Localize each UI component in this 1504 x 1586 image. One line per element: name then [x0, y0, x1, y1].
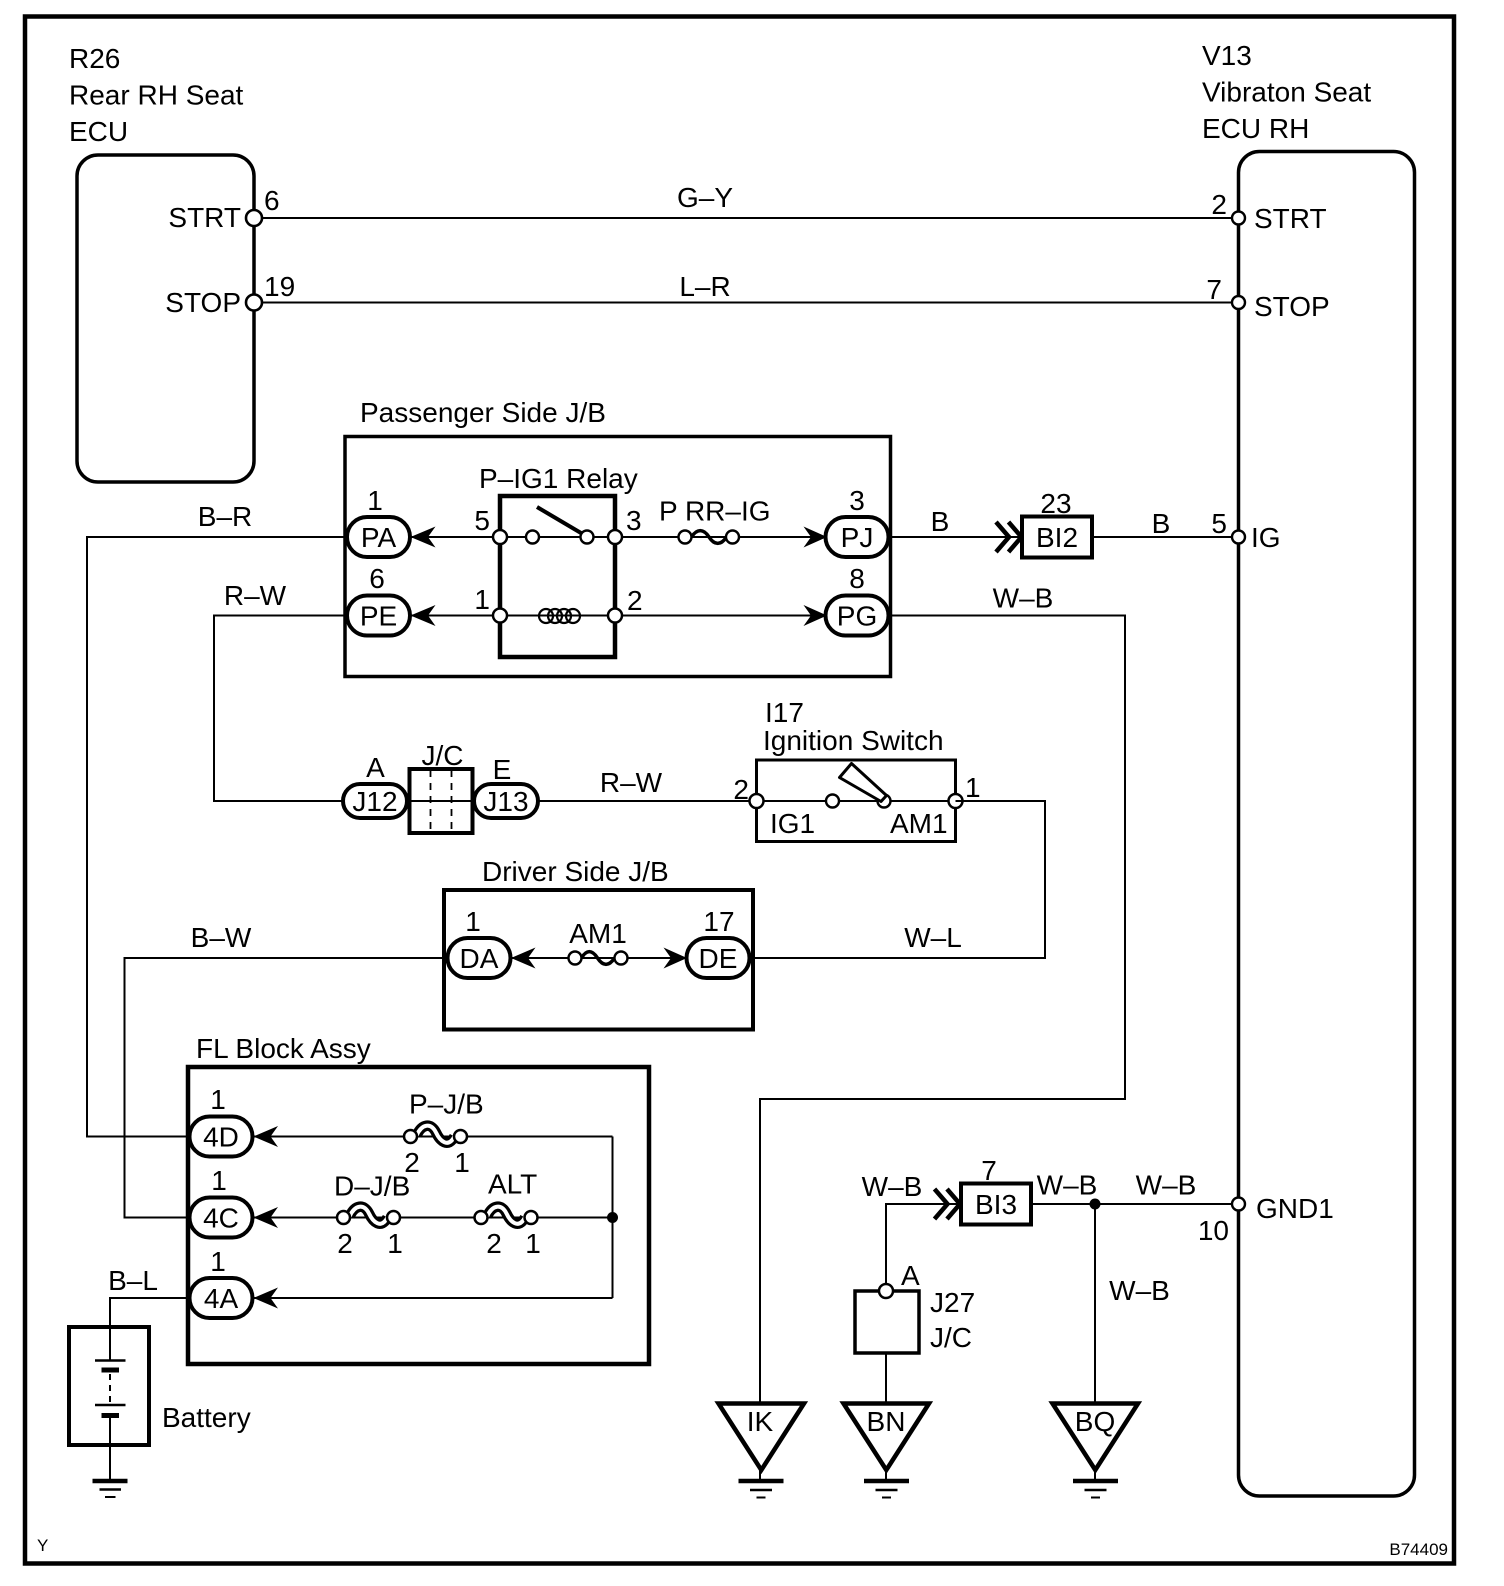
connector DA oval: [448, 938, 511, 978]
svg-text:FL Block Assy: FL Block Assy: [196, 1033, 371, 1064]
fusible link P-J/B symbol: [417, 1126, 455, 1143]
connector BI3 box: [961, 1184, 1031, 1225]
contact AM1 circle: [878, 795, 891, 808]
wire 4A row: [254, 1297, 613, 1299]
svg-text:B–W: B–W: [191, 922, 252, 953]
wire W-L from I17 pin1 to DE: [751, 801, 1046, 958]
svg-text:1: 1: [465, 906, 481, 937]
arrow into 4C: [254, 1207, 279, 1228]
svg-text:3: 3: [849, 485, 865, 516]
svg-text:1: 1: [210, 1084, 226, 1115]
chevron pair into BI2: [996, 522, 1009, 552]
svg-text:R–W: R–W: [600, 767, 663, 798]
Passenger Side J/B box: [345, 437, 891, 677]
svg-text:2: 2: [627, 585, 643, 616]
svg-text:6: 6: [264, 185, 280, 216]
wire B from BI2 to IG pin: [1092, 536, 1239, 538]
svg-text:STRT: STRT: [168, 202, 241, 233]
svg-text:1: 1: [387, 1228, 403, 1259]
svg-text:Rear RH Seat: Rear RH Seat: [69, 80, 244, 111]
svg-text:DA: DA: [460, 943, 499, 974]
svg-text:E: E: [493, 754, 512, 785]
pin circle IG V13: [1232, 531, 1245, 544]
battery box: [69, 1327, 149, 1445]
svg-text:AM1: AM1: [569, 918, 627, 949]
wire B from PJ to BI2: [889, 536, 1023, 538]
junction block J27 box: [855, 1291, 919, 1353]
pin 1 circle I17: [949, 794, 963, 808]
relay pin 2 circle: [608, 609, 622, 623]
ECU V13 Vibration Seat ECU RH box: [1239, 152, 1415, 1497]
wire R-W from J13 to ignition switch: [538, 800, 757, 802]
svg-text:B–R: B–R: [198, 501, 252, 532]
svg-text:7: 7: [1206, 274, 1222, 305]
arrow into PE: [411, 605, 436, 626]
svg-text:1: 1: [211, 1165, 227, 1196]
wire vertical bus in FL block: [612, 1137, 614, 1299]
svg-text:I17: I17: [765, 697, 804, 728]
svg-text:7: 7: [981, 1155, 997, 1186]
pin circle STRT R26: [246, 210, 262, 226]
pin circle STRT V13: [1232, 212, 1245, 225]
svg-text:J27: J27: [930, 1287, 975, 1318]
chevron pair into BI3: [935, 1189, 948, 1219]
wire PA to relay pin5: [410, 536, 500, 538]
svg-text:ECU RH: ECU RH: [1202, 113, 1309, 144]
relay pin 1 circle: [493, 609, 507, 623]
wire W-B from J27 to BI3: [886, 1204, 961, 1291]
svg-text:R–W: R–W: [224, 580, 287, 611]
svg-text:STRT: STRT: [1254, 203, 1327, 234]
arrow into PA: [411, 527, 436, 548]
wire L-R STOP to STOP: [254, 302, 1239, 304]
svg-text:6: 6: [369, 563, 385, 594]
wire W-B from PG down to IK ground: [760, 616, 1125, 1404]
svg-text:Battery: Battery: [162, 1402, 251, 1433]
connector PE oval: [347, 596, 410, 636]
contact IG1 circle: [826, 795, 839, 808]
svg-text:B–L: B–L: [108, 1265, 158, 1296]
svg-text:A: A: [901, 1260, 920, 1291]
wire R-W from PE to J12: [214, 616, 347, 802]
relay switch moving contact circle: [581, 531, 594, 544]
relay pin 3 circle: [608, 530, 622, 544]
connector 4A oval: [190, 1278, 253, 1318]
arrow into 4D: [254, 1126, 279, 1147]
pin circle GND1 V13: [1232, 1198, 1245, 1211]
svg-text:W–B: W–B: [1136, 1170, 1197, 1201]
svg-text:Vibraton Seat: Vibraton Seat: [1202, 77, 1371, 108]
svg-text:L–R: L–R: [679, 271, 730, 302]
ignition switch I17 box: [757, 760, 956, 842]
switch lever: [840, 764, 887, 802]
arrow into DE: [664, 948, 688, 969]
relay switch lever: [537, 507, 581, 533]
arrow into PJ: [804, 527, 828, 548]
connector PG oval: [826, 596, 889, 636]
svg-text:J13: J13: [483, 786, 528, 817]
wire J27 to BN ground: [885, 1353, 887, 1403]
relay P-IG1 box: [500, 496, 615, 657]
svg-text:B: B: [1152, 508, 1171, 539]
pin A circle J27: [879, 1284, 893, 1298]
svg-text:P–J/B: P–J/B: [409, 1089, 484, 1120]
relay pin 5 circle: [493, 530, 507, 544]
svg-text:IG1: IG1: [770, 808, 815, 839]
Driver Side J/B box: [444, 890, 753, 1030]
fusible link ALT symbol: [487, 1207, 525, 1224]
wire through J/C J12 to J13: [405, 800, 476, 802]
fuse AM1 symbol: [582, 952, 615, 965]
svg-text:W–B: W–B: [862, 1171, 923, 1202]
svg-text:17: 17: [703, 906, 734, 937]
wire battery to ground: [109, 1418, 111, 1481]
svg-text:10: 10: [1198, 1215, 1229, 1246]
svg-text:W–B: W–B: [993, 583, 1054, 614]
svg-text:Passenger Side J/B: Passenger Side J/B: [360, 397, 606, 428]
svg-text:AM1: AM1: [890, 808, 948, 839]
svg-text:2: 2: [337, 1228, 353, 1259]
svg-text:PE: PE: [360, 601, 397, 632]
svg-text:PJ: PJ: [841, 522, 874, 553]
connector 4C oval: [190, 1198, 253, 1238]
svg-text:IK: IK: [747, 1406, 774, 1437]
svg-text:IG: IG: [1251, 522, 1281, 553]
connector 4D oval: [190, 1117, 253, 1157]
svg-text:5: 5: [1211, 508, 1227, 539]
ground triangle BN: [844, 1404, 930, 1471]
svg-text:2: 2: [1211, 189, 1227, 220]
battery cell 1 short plate: [102, 1368, 120, 1373]
svg-text:BI2: BI2: [1036, 522, 1078, 553]
wire relay pin3 to PJ through fuse: [615, 536, 826, 538]
svg-text:3: 3: [626, 505, 642, 536]
wire PE to relay pin1: [410, 615, 500, 617]
svg-text:Ignition Switch: Ignition Switch: [763, 725, 944, 756]
svg-text:STOP: STOP: [1254, 291, 1330, 322]
svg-text:1: 1: [367, 485, 383, 516]
svg-text:R26: R26: [69, 43, 120, 74]
svg-text:Driver Side J/B: Driver Side J/B: [482, 856, 669, 887]
svg-text:STOP: STOP: [165, 287, 241, 318]
connector DE oval: [687, 938, 750, 978]
pin 2 circle I17: [750, 794, 764, 808]
FL Block Assy box: [188, 1067, 649, 1364]
wire relay pin2 to PG: [615, 615, 826, 617]
svg-text:BN: BN: [867, 1406, 906, 1437]
svg-text:ECU: ECU: [69, 116, 128, 147]
wire W-B from junction down to BQ: [1094, 1204, 1096, 1403]
ECU R26 Rear RH Seat box: [77, 155, 254, 482]
relay coil: [539, 609, 580, 623]
junction block J/C box: [410, 769, 473, 833]
connector PA oval: [347, 517, 410, 557]
connector J13 oval: [474, 784, 538, 818]
svg-text:1: 1: [210, 1246, 226, 1277]
svg-text:BQ: BQ: [1075, 1406, 1115, 1437]
svg-text:Y: Y: [37, 1536, 48, 1555]
connector PJ oval: [826, 517, 889, 557]
junction dot: [607, 1212, 618, 1223]
svg-text:4D: 4D: [203, 1122, 239, 1153]
svg-text:4A: 4A: [204, 1283, 239, 1314]
svg-text:W–L: W–L: [904, 922, 962, 953]
svg-text:P RR–IG: P RR–IG: [659, 496, 771, 527]
wire inside ignition switch: [757, 800, 956, 802]
arrow into DA: [511, 948, 536, 969]
svg-text:BI3: BI3: [975, 1189, 1017, 1220]
battery cell 2 short plate: [102, 1413, 120, 1418]
battery cell 1 long plate: [95, 1359, 126, 1362]
svg-text:1: 1: [965, 772, 981, 803]
ground symbol battery: [93, 1479, 128, 1484]
J/C dashed internal lines: [430, 770, 432, 832]
svg-text:1: 1: [454, 1147, 470, 1178]
svg-text:J/C: J/C: [422, 740, 464, 771]
wire G-Y STRT to STRT: [254, 217, 1239, 219]
relay internal wire bottom: [500, 615, 615, 617]
svg-text:W–B: W–B: [1109, 1275, 1170, 1306]
svg-text:J12: J12: [352, 786, 397, 817]
junction dot W-B: [1090, 1199, 1101, 1210]
svg-text:5: 5: [474, 505, 490, 536]
svg-text:ALT: ALT: [488, 1169, 537, 1200]
svg-text:A: A: [366, 752, 385, 783]
wire B-W from DA to FL 4C: [125, 958, 448, 1218]
svg-text:23: 23: [1040, 488, 1071, 519]
fuse P RR-IG symbol: [692, 531, 727, 544]
relay internal wire top: [500, 536, 615, 538]
relay switch fixed contact circle: [526, 531, 539, 544]
ground triangle IK: [719, 1404, 805, 1471]
battery cell 2 long plate: [95, 1404, 126, 1407]
pin circle STOP V13: [1232, 296, 1245, 309]
wire 4C row through D-J/B and ALT: [254, 1217, 613, 1219]
svg-text:4C: 4C: [203, 1203, 239, 1234]
wire W-B from BI3 to GND1: [1031, 1203, 1239, 1205]
battery dashed link: [109, 1374, 111, 1402]
wire DA to DE through AM1 fuse: [510, 957, 687, 959]
svg-text:P–IG1 Relay: P–IG1 Relay: [479, 463, 638, 494]
wire 4D row to P-J/B link: [254, 1136, 613, 1138]
svg-text:19: 19: [264, 271, 295, 302]
wire B-R from PA to FL 4D: [87, 537, 347, 1137]
ground triangle BQ: [1053, 1404, 1139, 1471]
fusible link D-J/B symbol: [350, 1207, 388, 1224]
svg-text:PG: PG: [837, 601, 877, 632]
connector BI2 box: [1022, 517, 1092, 558]
svg-text:DE: DE: [699, 943, 738, 974]
svg-text:GND1: GND1: [1256, 1193, 1334, 1224]
pin circle STOP R26: [246, 295, 262, 311]
svg-text:1: 1: [474, 584, 490, 615]
svg-text:B: B: [931, 506, 950, 537]
svg-text:J/C: J/C: [930, 1322, 972, 1353]
arrow into PG: [804, 605, 828, 626]
svg-text:1: 1: [525, 1228, 541, 1259]
svg-text:W–B: W–B: [1037, 1170, 1098, 1201]
svg-text:B74409: B74409: [1389, 1540, 1448, 1559]
svg-text:V13: V13: [1202, 40, 1252, 71]
svg-text:PA: PA: [361, 522, 397, 553]
svg-text:8: 8: [849, 563, 865, 594]
svg-text:2: 2: [486, 1228, 502, 1259]
svg-text:G–Y: G–Y: [677, 182, 733, 213]
arrow into 4A: [254, 1288, 279, 1309]
svg-text:D–J/B: D–J/B: [334, 1171, 410, 1202]
wire B-L from 4A to battery: [110, 1298, 190, 1360]
svg-text:2: 2: [733, 774, 749, 805]
connector J12 oval: [343, 784, 407, 818]
